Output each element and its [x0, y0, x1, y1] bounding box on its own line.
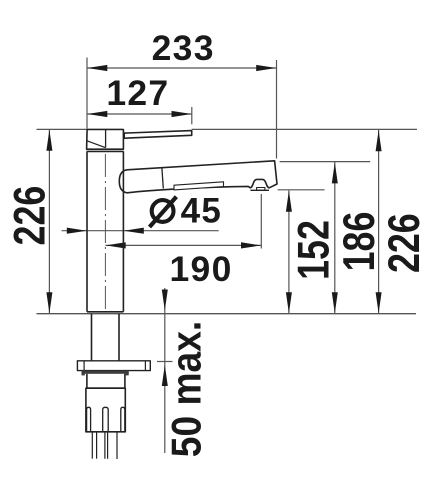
- svg-text:226: 226: [4, 186, 55, 246]
- svg-text:127: 127: [106, 73, 169, 113]
- svg-text:50 max.: 50 max.: [164, 321, 210, 457]
- svg-text:186: 186: [333, 212, 384, 272]
- svg-text:152: 152: [288, 220, 339, 280]
- svg-text:226: 226: [378, 213, 429, 273]
- svg-text:45: 45: [181, 192, 223, 231]
- svg-text:233: 233: [152, 28, 215, 68]
- svg-text:190: 190: [170, 249, 233, 289]
